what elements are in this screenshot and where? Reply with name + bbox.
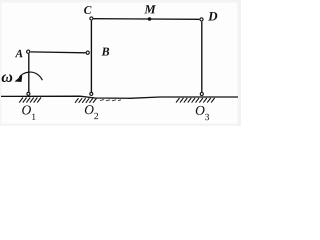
label M <box>144 5 156 13</box>
label omega <box>2 74 13 82</box>
label O1 - sub 1 <box>32 114 35 120</box>
joint A <box>27 50 30 53</box>
link C-D (horizontal) <box>94 18 200 21</box>
link D-O3 (vertical) <box>201 22 203 93</box>
pivot O2 <box>90 92 93 95</box>
hatching under O3 <box>176 98 215 103</box>
hatching under O1 <box>19 98 41 103</box>
omega rotation arrow (arc) <box>19 72 42 80</box>
ground line <box>1 96 238 98</box>
label O2 - sub 2 <box>94 113 98 119</box>
crank O1-A (vertical link) <box>28 54 30 92</box>
label A <box>15 50 23 57</box>
link A-B (horizontal) <box>31 51 86 54</box>
label O3 - O <box>196 106 205 115</box>
label B <box>101 48 109 56</box>
label D <box>208 12 217 21</box>
joint B <box>86 51 89 54</box>
arrowhead <box>15 75 23 82</box>
faint dashes right of O2 hatching <box>100 100 121 101</box>
pivot O1 <box>27 92 30 95</box>
label O3 - sub 3 <box>205 114 209 120</box>
label C <box>84 6 91 14</box>
hatching under O2 <box>75 98 97 103</box>
link O2-C (vertical) <box>90 21 92 92</box>
scan edge shading <box>0 0 241 3</box>
label O1 - O <box>22 105 31 114</box>
pivot O3 <box>200 93 203 96</box>
joint C <box>90 17 93 20</box>
point M (filled) <box>148 17 152 21</box>
joint D <box>200 18 203 21</box>
label O2 - O <box>85 105 94 114</box>
